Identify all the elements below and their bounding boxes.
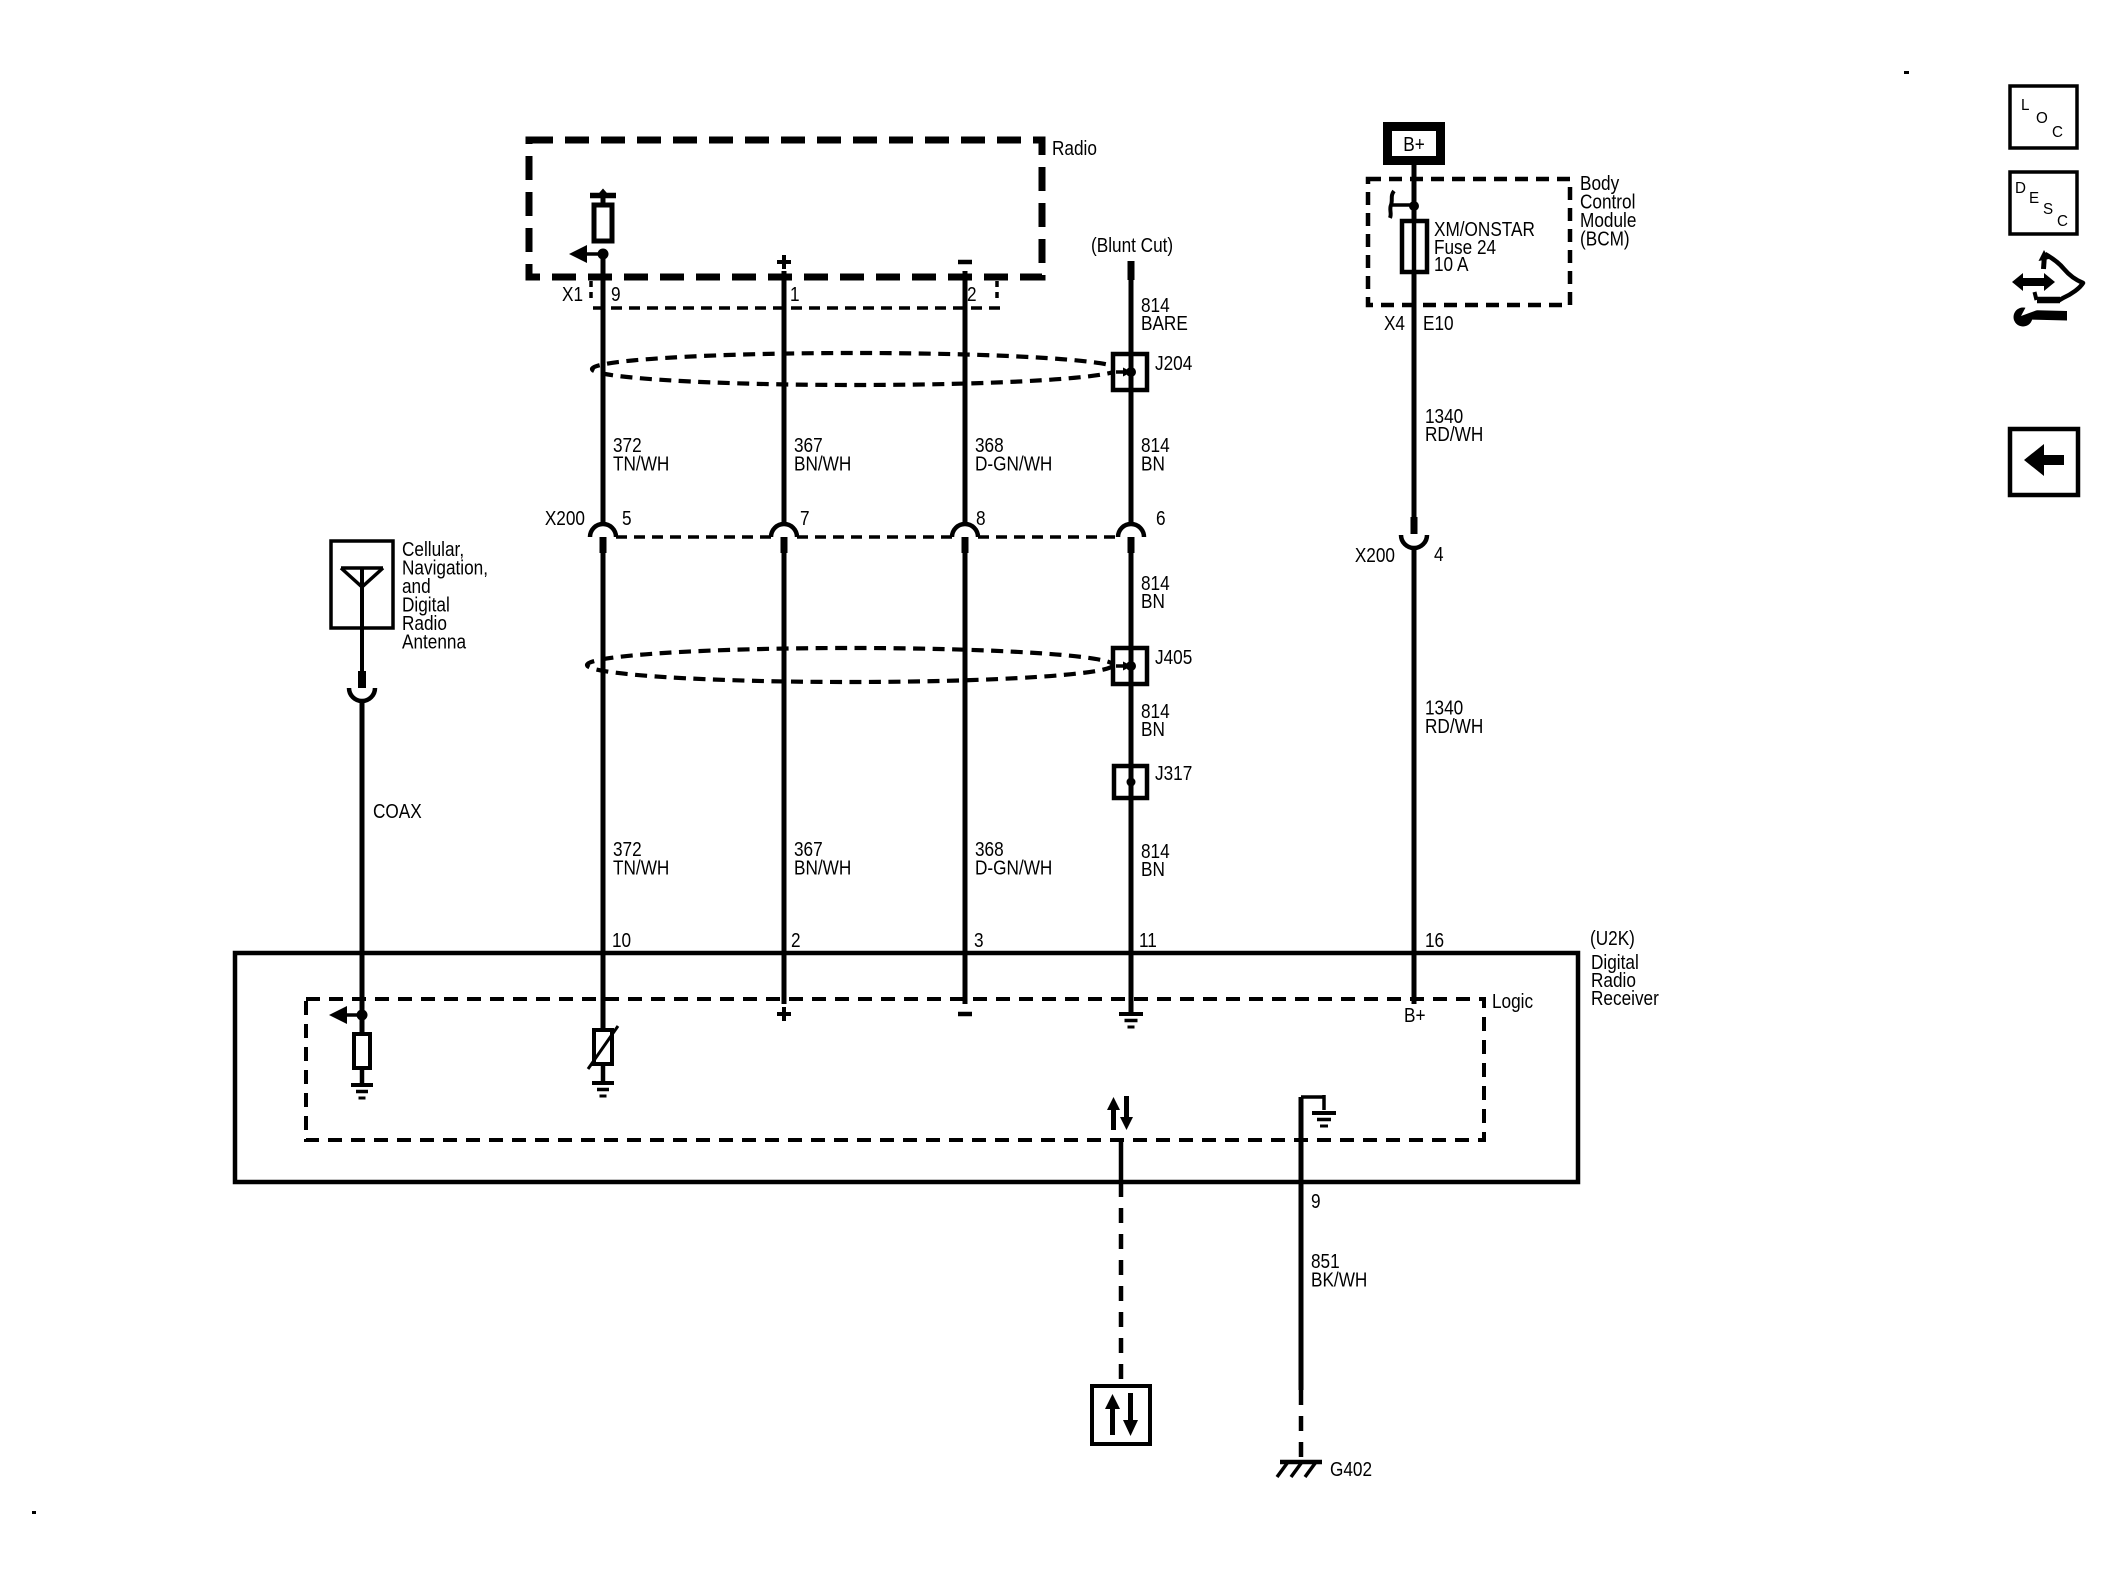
svg-text:E10: E10 bbox=[1423, 312, 1454, 335]
svg-text:X4: X4 bbox=[1384, 312, 1405, 335]
svg-text:L: L bbox=[2021, 97, 2030, 114]
svg-text:(BCM): (BCM) bbox=[1580, 227, 1630, 250]
svg-text:S: S bbox=[2043, 201, 2053, 218]
svg-text:4: 4 bbox=[1434, 543, 1444, 566]
svg-text:X200: X200 bbox=[545, 507, 585, 530]
svg-text:D-GN/WH: D-GN/WH bbox=[975, 856, 1052, 879]
svg-text:10 A: 10 A bbox=[1434, 253, 1469, 276]
svg-text:BN: BN bbox=[1141, 590, 1165, 613]
svg-text:BN: BN bbox=[1141, 858, 1165, 881]
svg-text:RD/WH: RD/WH bbox=[1425, 423, 1483, 446]
svg-text:X200: X200 bbox=[1355, 544, 1395, 567]
svg-text:9: 9 bbox=[611, 283, 621, 306]
svg-text:1: 1 bbox=[790, 283, 800, 306]
svg-text:TN/WH: TN/WH bbox=[613, 452, 669, 475]
svg-text:J317: J317 bbox=[1155, 762, 1192, 785]
svg-text:J204: J204 bbox=[1155, 352, 1192, 375]
svg-text:C: C bbox=[2057, 213, 2068, 230]
svg-text:B+: B+ bbox=[1404, 1004, 1426, 1027]
svg-text:TN/WH: TN/WH bbox=[613, 856, 669, 879]
svg-text:BN/WH: BN/WH bbox=[794, 452, 851, 475]
svg-text:O: O bbox=[2036, 110, 2048, 127]
svg-text:3: 3 bbox=[974, 929, 984, 952]
svg-text:10: 10 bbox=[612, 929, 631, 952]
svg-text:BN: BN bbox=[1141, 718, 1165, 741]
svg-text:J405: J405 bbox=[1155, 646, 1192, 669]
svg-text:7: 7 bbox=[800, 507, 810, 530]
svg-text:2: 2 bbox=[791, 929, 801, 952]
svg-text:BN: BN bbox=[1141, 452, 1165, 475]
svg-text:Radio: Radio bbox=[1052, 137, 1097, 160]
svg-text:11: 11 bbox=[1139, 929, 1157, 952]
svg-text:D-GN/WH: D-GN/WH bbox=[975, 452, 1052, 475]
svg-text:D: D bbox=[2015, 180, 2026, 197]
svg-text:E: E bbox=[2029, 190, 2039, 207]
svg-text:(Blunt Cut): (Blunt Cut) bbox=[1091, 234, 1173, 257]
svg-text:Receiver: Receiver bbox=[1591, 987, 1659, 1010]
svg-text:BARE: BARE bbox=[1141, 312, 1188, 335]
svg-text:C: C bbox=[2052, 124, 2063, 141]
svg-text:16: 16 bbox=[1425, 929, 1444, 952]
svg-text:G402: G402 bbox=[1330, 1458, 1372, 1481]
svg-text:Antenna: Antenna bbox=[402, 630, 467, 653]
svg-text:Logic: Logic bbox=[1492, 990, 1533, 1013]
svg-text:9: 9 bbox=[1311, 1190, 1321, 1213]
svg-text:6: 6 bbox=[1156, 507, 1166, 530]
svg-text:COAX: COAX bbox=[373, 800, 422, 823]
svg-text:5: 5 bbox=[622, 507, 632, 530]
svg-text:2: 2 bbox=[967, 283, 977, 306]
svg-text:(U2K): (U2K) bbox=[1590, 927, 1635, 950]
svg-text:BN/WH: BN/WH bbox=[794, 856, 851, 879]
svg-text:8: 8 bbox=[976, 507, 986, 530]
svg-text:BK/WH: BK/WH bbox=[1311, 1268, 1367, 1291]
svg-text:RD/WH: RD/WH bbox=[1425, 715, 1483, 738]
svg-text:B+: B+ bbox=[1403, 133, 1425, 156]
svg-text:X1: X1 bbox=[562, 283, 583, 306]
